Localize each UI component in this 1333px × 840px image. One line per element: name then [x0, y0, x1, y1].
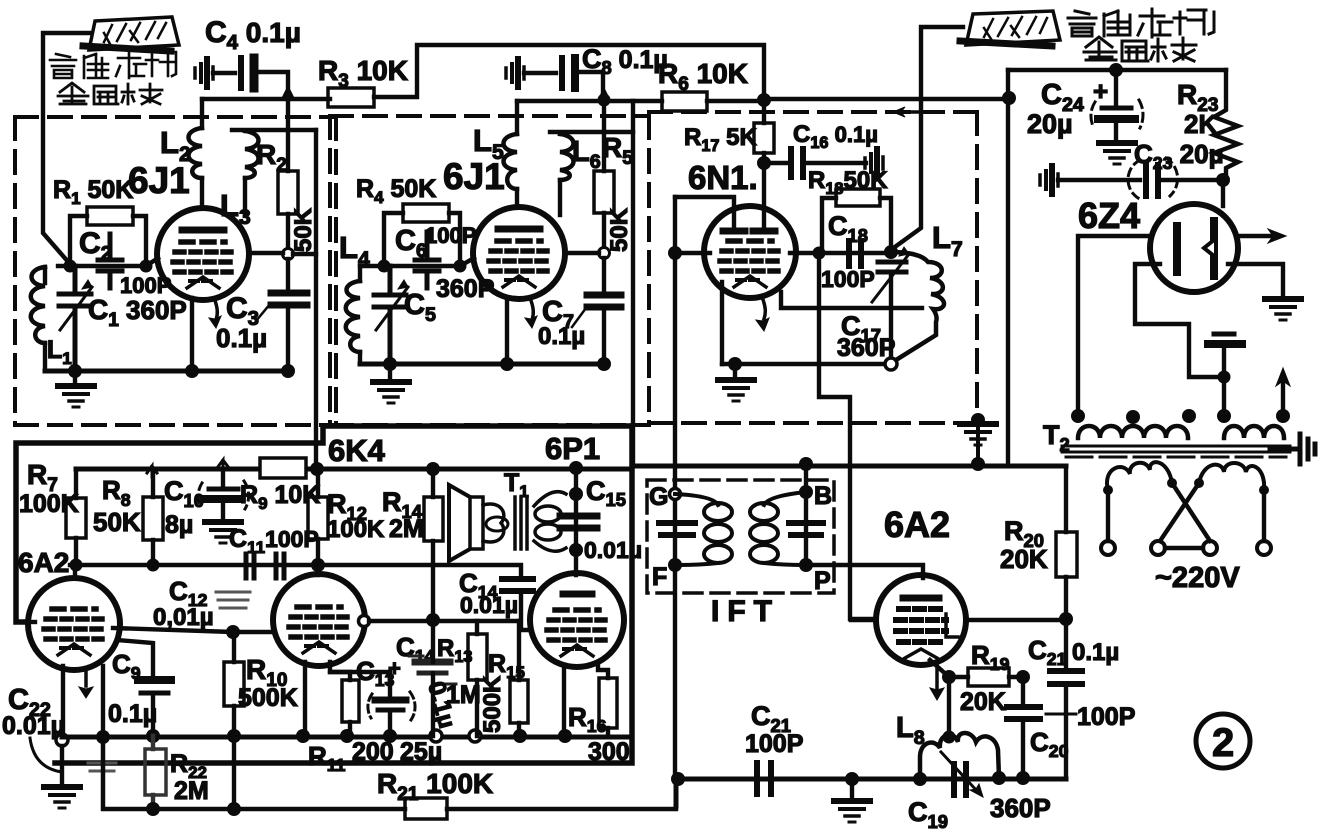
capacitor C7 — [587, 295, 621, 307]
IFT G terminal — [670, 489, 681, 500]
grid wire left (from rail) — [851, 618, 876, 622]
capacitor C7 wire — [602, 258, 606, 292]
R14 wires — [431, 469, 435, 618]
svg-text:500K: 500K — [479, 675, 506, 733]
wire R18 left to grid — [822, 198, 836, 252]
smudge stamp near C11 — [216, 592, 250, 608]
tube V2 cathode wire — [505, 298, 509, 364]
tube V7 plate bar — [563, 591, 592, 598]
tube V3 plate left stem and frame — [675, 197, 734, 231]
svg-text:R4 50K: R4 50K — [356, 175, 436, 207]
T1 secondary winding — [534, 492, 566, 506]
svg-text:6A2: 6A2 — [18, 547, 69, 578]
IFT right capacitor — [789, 523, 823, 535]
wire shield to C23 — [1058, 178, 1140, 182]
wire R3 to top rail — [374, 45, 764, 99]
R4 frame wires — [384, 213, 460, 265]
junction dot C24 top — [1109, 63, 1123, 77]
tube V6 grid structure — [289, 607, 349, 653]
junction dot R19 left — [942, 670, 956, 684]
tube V8 6A2 envelope — [876, 575, 966, 665]
wire R5 to grid junction — [602, 213, 606, 252]
svg-text:6Z4: 6Z4 — [1078, 195, 1140, 236]
wire V8 to L8 — [947, 677, 951, 734]
ground above 6A2 (on bus corner) — [976, 420, 980, 463]
svg-text:360P: 360P — [990, 793, 1051, 823]
C24 ground — [1114, 123, 1118, 140]
long AVC rail x316 — [314, 130, 318, 468]
arrow into bus stage2 — [598, 88, 610, 101]
svg-text:6J1: 6J1 — [443, 156, 505, 197]
IFT P terminal dot — [799, 558, 813, 572]
svg-text:IFT: IFT — [711, 595, 780, 628]
tube V7 grid structure — [547, 610, 607, 656]
pointer C3 — [256, 304, 270, 321]
tube V3 cathode arrow — [762, 297, 765, 319]
arrow into bus at x288 — [282, 86, 294, 99]
tube V1 cathode arrow — [214, 298, 217, 320]
svg-text:100P: 100P — [1077, 703, 1135, 731]
resistor R14 — [424, 497, 443, 541]
6Z4 cathode bars — [1173, 226, 1181, 272]
6Z4 left wire to T2 — [1078, 236, 1151, 416]
node junction R2/grid (open) — [283, 249, 294, 260]
smudge stamp near box edge — [88, 763, 116, 771]
wire C14 to tube V7 — [521, 591, 530, 630]
wire L1 ends — [43, 267, 47, 371]
T2 secondary winding right — [1199, 463, 1264, 490]
R10 wires — [232, 632, 236, 809]
frame wire top L6 — [550, 130, 633, 134]
tube V1 grid structure — [173, 242, 233, 288]
svg-text:100K: 100K — [19, 490, 79, 518]
tube V2 6J1 envelope — [473, 207, 565, 299]
tube V4 6Z4 envelope — [1150, 204, 1238, 292]
resistor R1 — [87, 207, 133, 225]
junction dot at 891 — [884, 245, 898, 259]
svg-text:0.01µ: 0.01µ — [460, 592, 518, 618]
resistor R11 — [342, 680, 359, 722]
wire junction to C16 — [764, 161, 786, 165]
wire R2 to grid junction — [286, 214, 290, 253]
wire tap down — [1222, 377, 1226, 416]
tube V1 plate bar — [182, 227, 224, 234]
tube V8 right wire — [966, 618, 1066, 622]
grid wire tube V1 right — [249, 253, 316, 254]
wire shield to C4 — [213, 71, 235, 75]
tube V2 cathode arrow — [530, 298, 533, 320]
tube V2 plate bar — [498, 226, 540, 233]
tube V8 heptode grid stack — [896, 609, 946, 642]
shield symbol at C4 — [195, 59, 213, 87]
junction dots bottom bus — [96, 730, 110, 744]
junction dots mid bus — [311, 558, 325, 572]
wire right side 6Z4 to ground — [1228, 264, 1283, 295]
tube V5 envelope — [28, 578, 120, 670]
wire shield to C8 — [524, 71, 556, 75]
svg-text:~220V: ~220V — [1155, 562, 1240, 594]
junction dot left end — [671, 772, 685, 786]
tube V5 grid wire from box edge — [28, 620, 35, 624]
svg-text:R1 50K: R1 50K — [53, 176, 133, 208]
junction dot at 233 — [226, 625, 240, 639]
svg-text:6P1: 6P1 — [545, 431, 600, 466]
wire C14' column — [431, 620, 435, 736]
T2 core lines — [1062, 446, 1290, 452]
stage3 bottom wire — [722, 362, 887, 366]
svg-text:500K: 500K — [238, 684, 298, 712]
ground C22 — [60, 746, 64, 784]
T2 primary winding left — [1078, 426, 1188, 438]
tube V6 cathode legs — [305, 662, 350, 736]
R11 wire — [348, 722, 352, 736]
junction dots bottom bus — [68, 364, 82, 378]
junction dot IFT B top — [799, 457, 813, 471]
T1 primary feed from bus — [574, 468, 578, 575]
C1 trimmer arrow — [60, 287, 92, 330]
capacitor above T2 tap — [1214, 332, 1234, 337]
mains cross wires — [1160, 483, 1210, 541]
grid wire V3 — [675, 251, 891, 255]
svg-text:50K: 50K — [93, 507, 141, 537]
mid bus wire — [70, 565, 521, 577]
open node C17/L7 bottom — [885, 358, 897, 370]
bus segment stage2 — [517, 99, 662, 103]
resistor R10 — [224, 662, 244, 706]
svg-text:0,01µ: 0,01µ — [153, 604, 214, 631]
grid wire tube V2 left — [360, 258, 474, 266]
tube V1 cathode wire — [190, 298, 194, 371]
resistor R19 — [968, 668, 1009, 686]
resistor R2 — [278, 171, 298, 214]
capacitor C3 wire — [286, 259, 290, 290]
R7 wires — [74, 469, 78, 565]
capacitor C21 upper — [1064, 619, 1068, 668]
tube V3 grid structure — [720, 241, 780, 287]
box outline right/bottom — [55, 426, 632, 763]
C10 ground — [221, 503, 225, 519]
variable capacitor C5 — [374, 266, 406, 364]
tube V3 right leg to line y308 — [781, 292, 922, 308]
svg-text:0.1µ: 0.1µ — [538, 323, 585, 350]
dashed box stage 2 (6J1) — [330, 116, 649, 425]
6Z4 second wire stepped — [1135, 264, 1224, 377]
svg-text:6K4: 6K4 — [328, 433, 386, 468]
junction dot stage3 bottom — [728, 357, 742, 371]
resistor R12 — [308, 497, 328, 539]
resistor R20 — [1056, 532, 1077, 577]
capacitor C2 — [98, 234, 122, 288]
wire L2 to tube V1 — [200, 178, 204, 208]
junction dot R20 bottom — [1059, 612, 1073, 626]
R19 right wire — [1009, 675, 1023, 679]
svg-text:100P: 100P — [821, 266, 875, 292]
circled figure 2 — [1196, 714, 1250, 768]
IFT left capacitor — [659, 523, 695, 535]
wire L5 to tube V2 — [515, 189, 519, 207]
svg-text:20K: 20K — [960, 688, 1006, 716]
6Z4 output arrow right — [1238, 234, 1272, 238]
inductor L6 — [560, 134, 574, 180]
svg-text:6A2: 6A2 — [884, 504, 950, 545]
wire C7 to bottom bus — [602, 307, 606, 364]
IFT dashed box — [647, 480, 834, 593]
L8 tap dot — [943, 731, 956, 744]
wire C16 to shield — [807, 161, 866, 165]
inner B+ bus — [76, 467, 632, 472]
R16 wire — [606, 728, 610, 737]
resistor R15 — [510, 680, 528, 723]
junction dots lower bus — [146, 802, 160, 816]
R20 wires — [1064, 466, 1068, 619]
C17 trimmer arrow — [872, 254, 909, 302]
R15 wires — [517, 621, 521, 736]
grid wire to R13/R15 — [369, 619, 519, 623]
wire C23 to R23 junction — [1162, 178, 1223, 182]
label 音量控制 (pseudo glyphs) — [50, 52, 176, 78]
inductor L4 — [346, 281, 360, 352]
resistor R6 — [662, 92, 707, 111]
C9 wire to bus — [151, 694, 155, 735]
junction dot bus end — [1002, 91, 1016, 105]
junction dot + ground mid — [845, 772, 859, 786]
IFT left coil — [675, 494, 718, 565]
wire bus to R17 — [762, 99, 766, 123]
capacitor C24 electrolytic — [1114, 70, 1118, 106]
tube V5 legs — [63, 666, 103, 738]
R13 wires — [475, 621, 479, 736]
svg-text:25µ: 25µ — [400, 738, 442, 766]
IFT P wire to 6A2 — [806, 565, 923, 578]
resistor R13 — [468, 634, 487, 680]
tube V3 left leg — [720, 282, 724, 364]
inductor L7 — [891, 252, 944, 360]
frame wire top of L3/R2 — [232, 128, 316, 132]
tube V8 cathode chevron — [905, 649, 937, 658]
capacitor C20 — [1021, 677, 1025, 704]
tube V2 grid structure — [489, 241, 549, 287]
C22 open terminal — [56, 734, 68, 746]
resistor R23 zigzag — [1214, 70, 1238, 180]
svg-text:20µ: 20µ — [1027, 109, 1073, 139]
up arrow at T2 right — [1281, 382, 1285, 416]
speaker — [449, 485, 470, 561]
wire R6 to junction — [707, 99, 764, 103]
inductor L5 — [504, 134, 518, 189]
tube V1 6J1 envelope — [157, 208, 249, 300]
V6 grid out right (open node) — [359, 616, 370, 627]
T2 primary junction dots — [1071, 409, 1085, 423]
svg-text:0.1µ: 0.1µ — [1072, 639, 1119, 666]
center line down from grid x819 — [819, 253, 876, 619]
ground stage1 — [73, 371, 77, 384]
svg-text:20K: 20K — [1000, 544, 1048, 574]
variable capacitor C1 — [59, 266, 91, 371]
junction dots grid left — [64, 260, 77, 273]
ground stage2 — [388, 364, 392, 380]
svg-text:2: 2 — [1212, 721, 1234, 765]
junction dots L8/C19 — [913, 772, 927, 786]
wire R17 junction to tube plate — [762, 163, 766, 230]
ground at box3 bottom right — [971, 413, 985, 427]
tube V3 plate bars — [723, 228, 775, 235]
PSU top rail — [1008, 68, 1226, 72]
tube V5 right wire to C9 — [117, 640, 153, 677]
junction dot grid V3 — [668, 246, 682, 260]
bottom bus stage2 — [360, 362, 604, 367]
grid wire tube V2 right — [565, 251, 599, 255]
inductor L3 secondary — [245, 131, 259, 178]
R22 resistor (fuzzy) — [145, 736, 166, 809]
capacitor C15 — [560, 516, 597, 528]
PSU left rail x1008 — [1006, 70, 1010, 463]
capacitor C8 — [559, 58, 565, 88]
svg-text:R1850K: R1850K — [808, 167, 888, 198]
resistor R9 (in series on bus) — [260, 458, 306, 478]
wire bus to L2 — [200, 99, 204, 128]
wire C3 to bottom bus — [286, 308, 290, 371]
svg-text:200: 200 — [352, 738, 394, 766]
svg-text:100P: 100P — [425, 223, 476, 248]
svg-text:F: F — [652, 563, 667, 591]
svg-text:P: P — [814, 567, 831, 595]
capacitor C13 electrolytic — [330, 672, 390, 697]
6Z4 plate bar — [1210, 221, 1218, 276]
wire L6 down — [558, 180, 562, 215]
metal plate (volume control) top-left — [83, 17, 179, 51]
IFT F terminal dot — [668, 558, 682, 572]
capacitor C9 — [138, 676, 171, 684]
main bus to PSU — [764, 97, 1009, 101]
capacitor C16 — [791, 149, 803, 177]
svg-text:50K: 50K — [606, 207, 633, 252]
svg-text:6J1: 6J1 — [128, 160, 190, 201]
capacitor C14 (upper, on V7 grid feed) — [502, 579, 533, 591]
inductor L2 — [189, 128, 203, 178]
T2 core shield right — [1270, 434, 1315, 464]
capacitor C21 (lower, series) — [757, 763, 771, 794]
resistor R5 — [594, 171, 614, 213]
shield symbol at C8 — [506, 59, 524, 87]
C5 trimmer arrow — [376, 287, 408, 330]
svg-text:G: G — [649, 483, 668, 511]
wire C8 to bus drop — [579, 72, 603, 97]
R8 wires — [151, 469, 155, 565]
grid wire tube V1 left — [58, 258, 158, 266]
capacitor C18 — [849, 241, 861, 266]
svg-text:360P: 360P — [436, 275, 494, 303]
small arrow mark R8 top — [147, 466, 157, 477]
inductor L1 — [31, 267, 45, 343]
label 金屬板 (pseudo glyphs) — [58, 83, 162, 104]
R12 wires / V6 feed — [316, 469, 320, 575]
right B+ bus (lower) — [632, 464, 1066, 469]
variable capacitor C17 — [878, 262, 906, 272]
svg-text:6N1.: 6N1. — [688, 159, 758, 196]
junction dots on B+ bus — [310, 462, 324, 476]
dashed box stage 3 (6N1) — [649, 112, 977, 423]
rail x633 — [631, 101, 635, 466]
capacitor C4 — [238, 58, 244, 88]
inductor L8 — [920, 733, 999, 778]
capacitor C11 (double, in series on mid bus) — [246, 554, 284, 578]
ground stage3 — [733, 364, 737, 378]
svg-text:8µ: 8µ — [165, 511, 193, 539]
svg-text:300: 300 — [588, 738, 630, 766]
wire R17 to junction — [762, 153, 766, 163]
box outline top/left — [16, 426, 632, 622]
resistor R18 — [836, 189, 880, 206]
junction dot R23 bottom — [1216, 173, 1230, 187]
junction dot 433,618 — [426, 613, 440, 627]
resistor R3 — [328, 88, 374, 107]
T2 primary winding right — [1224, 426, 1284, 438]
mains terminals — [1101, 541, 1115, 555]
resistor R21 — [405, 798, 447, 819]
capacitor C3 — [271, 293, 307, 305]
IFT B wire to bus — [804, 464, 808, 565]
junction dot at 819 — [813, 247, 826, 260]
resistor R16 — [599, 678, 617, 728]
shield symbol C16 — [865, 149, 883, 177]
resistor R17 — [754, 123, 774, 153]
svg-text:B: B — [814, 482, 832, 510]
resistor R7 — [66, 498, 86, 538]
tube V6 6K4 envelope — [273, 574, 365, 666]
wire mid bus to tube V5 — [73, 565, 77, 578]
node junction R5/grid (open) — [599, 248, 610, 259]
metal plate (volume control) top-right — [960, 11, 1060, 46]
resistor R8 — [143, 497, 163, 540]
tube V5 cathode arrow — [84, 668, 88, 686]
bottom bus stage1 — [45, 369, 291, 374]
resistor R4 — [403, 204, 449, 222]
svg-text:2M: 2M — [174, 777, 209, 805]
wire bus to R2 — [286, 99, 290, 171]
6A2 cathode arrow — [935, 662, 939, 688]
tube V7 6P1 envelope — [530, 573, 624, 667]
wire L4 ends — [358, 266, 362, 364]
capacitor C14' smudged — [409, 656, 456, 684]
wire junction to 6Z4 top — [1221, 180, 1225, 206]
wire bus to R5 — [602, 104, 606, 171]
small arrow mark C10 top — [217, 460, 229, 477]
svg-text:2M: 2M — [389, 515, 424, 543]
svg-text:0.1µ: 0.1µ — [108, 700, 157, 728]
tube V5 grid structure — [44, 609, 104, 655]
C22 arc — [30, 738, 62, 772]
tube V8 top bar — [903, 595, 939, 602]
wire L3 down — [243, 178, 247, 215]
label 金屬板 (right, pseudo) — [1084, 37, 1196, 61]
capacitor C19 variable (series) — [954, 764, 966, 795]
tube V3 6N1 envelope — [704, 206, 796, 298]
shield symbol C23 — [1040, 166, 1058, 194]
right bottom bus — [676, 779, 1066, 806]
wire bus to L5 — [515, 101, 519, 134]
wire plate2 to 6N1 grid — [892, 27, 963, 249]
R1 frame wires — [70, 216, 146, 265]
junction dots bottom bus stage2 — [383, 357, 397, 371]
svg-text:100P: 100P — [745, 730, 803, 758]
arrow on dashed box3 top — [899, 110, 931, 114]
junction dot at x764 bus — [757, 93, 771, 107]
IFT B terminal dot — [799, 485, 813, 499]
tube V5 grid wire right / to V6 — [113, 628, 274, 632]
svg-text:50K: 50K — [290, 207, 317, 252]
tube V8 anode frame — [946, 614, 958, 637]
wire R18 right down — [880, 198, 891, 252]
